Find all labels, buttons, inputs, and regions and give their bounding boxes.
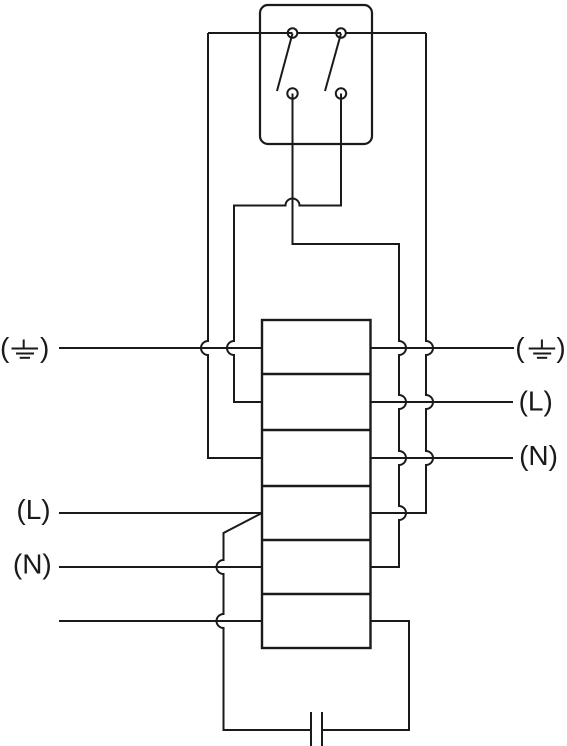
stub: top bus into pole1 top terminal (286, 32, 293, 34)
wire: capacitor loop right side, from capacitor up to row 6 block right edge (322, 621, 409, 730)
svg-text:(L): (L) (16, 494, 50, 525)
earth symbol left (12, 340, 39, 358)
svg-text:(: ( (0, 332, 10, 363)
svg-text:): ) (556, 332, 565, 363)
wire: row 5 left from (N) label to block left edge (59, 566, 262, 568)
switch S pole 1 blade (open) (277, 34, 293, 92)
stub: pole1 bottom terminal to wire below (292, 94, 294, 101)
wire: earth row 1 left, from left earth symbol to block left edge (59, 347, 262, 349)
wire: left vertical from top bus down (hop over earth row) to row 3 into block left (201, 33, 262, 458)
wire: row 4 left from (L) label to block left edge (59, 512, 262, 514)
switch S terminal circles (287, 28, 346, 99)
svg-text:(N): (N) (13, 549, 52, 580)
wire: diagonal branch from row-4 junction down to capacitor loop left vertical (hops rows 5,6) (217, 513, 311, 730)
wire: from switch lower-right terminal down, left at y205 (hop over x292.5), down x234 (hop row 1) to row 2 into block left (227, 94, 341, 403)
switch S pole 2 blade (open) (325, 34, 341, 92)
wire: earth row 1 right, block right edge to right earth symbol (371, 347, 515, 349)
svg-text:): ) (40, 332, 49, 363)
wire: from switch lower-left terminal down, right at y244, down x399 (hops rows 1-4) to row 5 into block right (293, 94, 407, 568)
wire: row 6 left unlabeled wire to block left edge (59, 620, 262, 622)
wire: top bus from left corner through switch top terminals to right corner (208, 32, 426, 34)
svg-text:(N): (N) (519, 440, 558, 471)
terminal block TB (6 cells) (262, 320, 371, 648)
wire: row 3 right to (N) label (371, 457, 514, 459)
svg-text:(L): (L) (519, 386, 553, 417)
svg-text:(: ( (515, 332, 525, 363)
earth symbol right (529, 340, 556, 358)
switch S (double-pole) enclosure (260, 5, 372, 144)
stub: top bus into pole2 top terminal (335, 32, 342, 34)
capacitor C (plates at bottom centre) (311, 712, 322, 746)
stub: pole2 bottom terminal to wire below (340, 94, 342, 101)
wire: row 2 right to (L) label (371, 401, 514, 403)
wire: right vertical from top bus down (hops over rows 1-3) to row 4 into block right (371, 33, 434, 513)
